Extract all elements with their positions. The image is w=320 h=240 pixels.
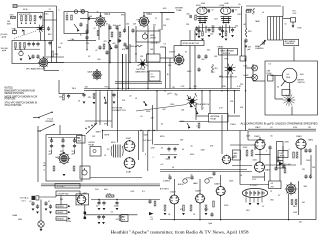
resistor R12: [111, 32, 113, 37]
spur rejector box: [181, 41, 204, 46]
resistor R11 20K: [52, 51, 54, 57]
resistor R3: [30, 16, 32, 22]
capacitor C30: [210, 212, 213, 217]
capacitor C35: [114, 44, 117, 49]
svg-text:RFC: RFC: [248, 31, 252, 33]
keyer relay box: [90, 147, 101, 157]
svg-text:μμfd: μμfd: [2, 50, 6, 52]
svg-text:5U4: 5U4: [95, 189, 98, 191]
capacitor C49: [274, 166, 277, 171]
svg-text:.05: .05: [129, 96, 132, 98]
svg-text:.1: .1: [152, 157, 154, 159]
wire spot rail: [179, 121, 209, 123]
resistor R13: [119, 32, 121, 37]
resistor R29: [190, 205, 192, 211]
svg-text:ALL CAPACITORS IN μμFD. UNLESS: ALL CAPACITORS IN μμFD. UNLESS OTHERWISE…: [241, 123, 318, 126]
capacitor C23: [308, 148, 311, 153]
tube V18 rectifier: [285, 183, 297, 196]
switch arm arrow: [23, 30, 25, 35]
svg-text:.001: .001: [153, 24, 157, 26]
node dots VFO: [15, 48, 16, 49]
resistor R38: [202, 31, 204, 36]
relay coil: [93, 149, 96, 152]
tube V6 6146 final 1: [197, 7, 207, 14]
wire AC heater line B: [41, 185, 160, 187]
tube V1 VFO 6AU6: [38, 57, 49, 68]
tube V16 audio 12AX7 b: [195, 193, 205, 203]
resistor R14: [97, 31, 99, 36]
socket V6: [197, 17, 208, 24]
svg-text:.05: .05: [161, 124, 164, 126]
wire hv link: [240, 184, 269, 186]
meter panel box: [265, 61, 318, 115]
wire speech mid: [248, 139, 265, 141]
wire above function switch: [85, 120, 112, 122]
svg-text:2.2MEG: 2.2MEG: [163, 181, 170, 183]
resistor R16 56K: [63, 95, 65, 101]
wire speech tube links: [259, 137, 261, 140]
svg-text:SW: SW: [60, 199, 63, 201]
pilot lamp: [38, 221, 44, 227]
svg-text:30: 30: [277, 87, 279, 89]
svg-text:.005: .005: [214, 19, 218, 21]
capacitor C3: [32, 42, 35, 47]
wire clip links: [230, 144, 255, 146]
resistor R30: [205, 205, 207, 211]
svg-text:+5: +5: [43, 170, 45, 172]
bias adjust box: [233, 150, 241, 160]
svg-text:ORN/BLK: ORN/BLK: [57, 206, 65, 208]
wire audio bottom rail: [160, 219, 316, 221]
audio coupling capacitor C37: [190, 175, 193, 180]
wire diode link: [84, 205, 86, 217]
svg-text:RG8: RG8: [298, 28, 302, 30]
svg-text:XTAL POSITION.: XTAL POSITION.: [5, 104, 23, 107]
svg-text:μfd: μfd: [72, 153, 75, 155]
socket pins: [246, 191, 262, 197]
svg-text:V3: V3: [164, 44, 166, 46]
wire function verticals: [107, 92, 109, 126]
wire right drops: [315, 145, 317, 220]
resistor R1: [21, 16, 23, 22]
svg-text:.001: .001: [302, 202, 306, 204]
wire mode links: [201, 91, 203, 110]
svg-text:.005: .005: [219, 76, 223, 78]
socket pin circles: [246, 192, 265, 194]
svg-text:SWITCH: SWITCH: [223, 53, 231, 55]
clipping inner box: [278, 151, 288, 158]
svg-text:1MEG: 1MEG: [96, 132, 102, 134]
svg-text:T3: T3: [270, 191, 272, 193]
svg-text:100: 100: [197, 29, 200, 31]
wire meter drop: [289, 83, 291, 94]
svg-text:OSC: OSC: [45, 14, 50, 16]
power plug: [32, 196, 36, 200]
modulation transformer T1: [111, 145, 123, 158]
rail contact arrow: [144, 102, 147, 106]
svg-text:.02: .02: [60, 43, 63, 45]
svg-text:.05: .05: [161, 148, 164, 150]
svg-text:100: 100: [126, 23, 129, 25]
svg-text:.01: .01: [140, 116, 143, 118]
resistor R10: [71, 15, 73, 20]
svg-text:A.F. INPUT: A.F. INPUT: [160, 188, 170, 191]
wire B+ rail mid 2: [143, 12, 175, 14]
svg-text:866: 866: [271, 200, 274, 202]
capacitor C24: [97, 201, 100, 206]
svg-text:V2: V2: [49, 9, 51, 11]
svg-text:.5μfd: .5μfd: [208, 223, 212, 225]
svg-text:.01: .01: [48, 201, 51, 203]
resistor R2: [25, 16, 27, 22]
svg-text:RFC: RFC: [121, 15, 125, 17]
svg-text:CW: CW: [92, 136, 95, 138]
svg-text:8: 8: [145, 154, 146, 156]
capacitor C51: [105, 50, 108, 55]
svg-text:.01: .01: [168, 175, 170, 177]
svg-text:VFO BANDSWITCH: VFO BANDSWITCH: [26, 67, 45, 70]
svg-text:12AX7: 12AX7: [195, 190, 202, 193]
tube V3 5763 buffer: [138, 15, 150, 27]
resistor R34: [198, 123, 200, 128]
junction dots extra: [95, 90, 96, 91]
antenna changeover relay box: [284, 40, 299, 46]
transformer wire label ORN: [56, 205, 67, 208]
HV arrows: [279, 162, 284, 165]
svg-text:.002: .002: [162, 109, 166, 111]
capacitor C29: [148, 199, 151, 204]
svg-text:μfd: μfd: [43, 165, 46, 167]
resistor R33: [295, 200, 297, 205]
wire vertical 154: [153, 26, 155, 54]
wire LV rail 2: [85, 214, 138, 216]
svg-text:47: 47: [94, 28, 96, 30]
wire screen rail finals: [196, 27, 236, 29]
key jack lever: [33, 117, 39, 119]
wire vert 231: [230, 74, 232, 89]
exciter output box: [147, 54, 161, 62]
svg-text:μμfd): μμfd): [2, 36, 7, 38]
ground filter: [63, 174, 66, 176]
capacitor C15: [204, 54, 207, 59]
clipping level box: [277, 142, 284, 169]
capacitor C12: [190, 15, 191, 18]
svg-text:47: 47: [155, 18, 157, 20]
svg-text:6146: 6146: [225, 3, 229, 5]
meter pointer: [281, 81, 286, 87]
VFO coil box: [64, 12, 88, 34]
wire relay to meter: [228, 115, 240, 117]
ground C18: [113, 102, 116, 104]
svg-text:.01: .01: [190, 175, 193, 177]
wire vert 222: [221, 49, 223, 89]
final tank coil L2: [268, 17, 284, 41]
junction dots rails: [108, 88, 109, 89]
svg-text:OSC: OSC: [10, 15, 15, 17]
svg-text:RFC: RFC: [211, 72, 215, 74]
svg-text:1MEG: 1MEG: [308, 140, 314, 142]
svg-text:VFO: VFO: [105, 86, 109, 88]
wire mod rails right: [154, 144, 179, 146]
svg-text:47: 47: [235, 10, 237, 12]
parasitic choke L1: [253, 8, 255, 14]
svg-text:μfd: μfd: [248, 49, 251, 51]
line voltage box 2: [56, 191, 80, 196]
resistor R36: [103, 44, 105, 49]
wire meter lamp link: [252, 64, 254, 81]
svg-text:1500: 1500: [253, 160, 257, 162]
tube V5 clamp 6AU6: [92, 70, 103, 81]
svg-text:100: 100: [210, 34, 213, 36]
driver output box: [149, 71, 160, 81]
wire HV verticals: [288, 194, 290, 220]
svg-text:100: 100: [214, 56, 217, 58]
resistor R37: [277, 157, 279, 162]
svg-text:30: 30: [172, 167, 174, 169]
wire vertical 125: [124, 13, 126, 31]
wire finals drops a: [202, 24, 204, 32]
wire exciter rail join: [122, 54, 124, 89]
wire mod b plus vertical: [156, 91, 158, 131]
capacitor C8: [108, 25, 111, 30]
tube V2 6CL6 oscillator: [95, 15, 107, 27]
tube V19 6AX5 rectifier: [77, 195, 87, 205]
trimmer cap T1: [74, 10, 78, 14]
socket V7: [221, 17, 232, 24]
wire switch drop: [37, 126, 39, 182]
LV HV terminal box: [269, 181, 281, 189]
bias potentiometer: [82, 170, 87, 175]
wire spot cluster: [187, 123, 190, 128]
wire vertical junction: [108, 24, 110, 89]
svg-text:40: 40: [96, 206, 98, 208]
svg-text:M.A.: M.A.: [286, 76, 291, 79]
svg-text:3.5: 3.5: [111, 212, 114, 214]
resistor R7: [19, 43, 21, 48]
svg-text:L1: L1: [66, 13, 68, 15]
wire driver drop: [161, 13, 163, 31]
ground 6146 a: [198, 36, 201, 38]
resistor R31: [213, 201, 215, 207]
svg-text:80M: 80M: [7, 24, 11, 26]
svg-text:MOD.: MOD.: [160, 136, 165, 138]
tube V9 6CA7 modulator 1: [124, 140, 136, 152]
wire speech verticals: [221, 115, 223, 154]
svg-text:.1: .1: [203, 108, 205, 110]
exciter bandswitch rotary: [138, 59, 148, 69]
svg-text:PUSHBUTTON: PUSHBUTTON: [113, 110, 127, 112]
svg-text:1W: 1W: [172, 87, 175, 89]
svg-text:.01: .01: [95, 50, 98, 52]
capacitor C22: [304, 148, 307, 153]
wire shield vertical: [56, 6, 58, 63]
svg-text:6146: 6146: [201, 3, 205, 5]
svg-text:5R4: 5R4: [246, 210, 249, 212]
mode switch arrows: [187, 95, 190, 99]
tube V15 audio 12AX7 a: [169, 194, 179, 204]
resistor R32: [291, 200, 293, 205]
wire speech rails: [160, 169, 247, 171]
ground C45: [208, 35, 211, 37]
resistor R17: [93, 94, 95, 99]
line filter capacitor Cb: [44, 201, 47, 206]
ground C44: [195, 34, 198, 36]
svg-text:LAMP: LAMP: [244, 74, 250, 77]
wire screen rail join: [245, 14, 247, 29]
wire B+ rail mid: [88, 12, 125, 14]
wire speech h2: [252, 176, 265, 178]
resistor R26: [154, 201, 156, 206]
tube V10 6CA7 modulator 2: [124, 157, 136, 169]
wire finals drops b: [225, 24, 227, 32]
svg-text:FUSE: FUSE: [66, 221, 72, 223]
svg-text:SPUR. REJECTOR: SPUR. REJECTOR: [183, 43, 200, 45]
svg-text:BFO: BFO: [48, 34, 52, 36]
capacitor C14: [197, 67, 200, 72]
crystal bank box: [17, 13, 43, 28]
wire vert 234.5: [234, 91, 236, 114]
meter switch rotary: [283, 94, 296, 107]
svg-text:40μfd: 40μfd: [114, 206, 119, 208]
rotary final bandswitch: [225, 64, 236, 75]
dial lamp I1: [252, 65, 258, 71]
resistor R5 grid: [11, 16, 16, 18]
junction dots exciter: [109, 62, 110, 63]
wire meter link2: [275, 98, 283, 100]
dial mechanism box: [45, 12, 54, 41]
capacitor C31: [304, 174, 307, 179]
svg-text:12BY7: 12BY7: [169, 52, 176, 54]
svg-text:NOTES:: NOTES:: [5, 88, 14, 90]
wire plate V3: [143, 13, 145, 16]
wire clip drop: [282, 146, 284, 153]
svg-text:.005: .005: [235, 26, 239, 28]
tube V4 12BY7 driver: [173, 54, 185, 66]
ground R17: [93, 102, 96, 104]
svg-text:.25: .25: [190, 146, 193, 148]
resistor R9: [66, 15, 68, 20]
wire bias link: [90, 177, 142, 179]
wire vertical 136: [135, 26, 137, 54]
svg-text:GND: GND: [18, 219, 23, 221]
svg-text:40: 40: [99, 201, 101, 203]
wire speech mid2: [247, 131, 249, 140]
svg-text:47: 47: [185, 52, 187, 54]
capacitor C42: [31, 54, 34, 59]
ground C48: [245, 46, 248, 48]
svg-text:RFC: RFC: [238, 14, 242, 16]
svg-text:.05: .05: [169, 93, 172, 95]
trimmer cap T2: [81, 10, 85, 14]
svg-text:TUBE: TUBE: [176, 10, 182, 12]
ground socket: [249, 203, 252, 205]
capacitor C13: [197, 54, 200, 59]
wire dashed switch link: [14, 31, 36, 39]
diode D2: [84, 212, 87, 215]
shunt box: [282, 90, 290, 96]
switch arm in coil box: [74, 24, 79, 31]
capacitor C7: [89, 17, 90, 20]
function switch contacts: [85, 123, 95, 129]
svg-text:12AU7: 12AU7: [265, 169, 272, 172]
svg-text:2A3: 2A3: [304, 185, 307, 188]
svg-text:6CA7: 6CA7: [126, 170, 132, 173]
socket pin leads: [246, 198, 262, 203]
wire LV rail: [91, 199, 160, 201]
svg-text:.1: .1: [288, 149, 290, 151]
svg-text:6CL6: 6CL6: [105, 14, 111, 16]
crystal switch SW1: [37, 25, 45, 33]
capacitor C45: [207, 28, 210, 33]
svg-text:2W: 2W: [240, 84, 243, 86]
coupling parts: [195, 15, 197, 20]
wire vertical 128.5: [128, 26, 130, 89]
svg-text:L4: L4: [262, 12, 264, 14]
trimmer inside dial box: [47, 26, 50, 31]
svg-text:MODE SWITCH: MODE SWITCH: [196, 104, 210, 106]
function switch lever: [86, 123, 97, 134]
crystal Y1: [13, 31, 17, 34]
svg-text:INP.: INP.: [122, 219, 126, 221]
ground 6146 b: [221, 36, 224, 38]
ground VFO: [20, 59, 23, 61]
filter caps group 1: [50, 138, 53, 143]
wire notes vert: [58, 80, 60, 94]
capacitor C9: [115, 25, 118, 30]
svg-text:100: 100: [89, 16, 92, 18]
svg-text:RELAY: RELAY: [218, 45, 225, 48]
tube V14 12AU7 b: [295, 138, 306, 149]
resistor R19: [73, 166, 75, 171]
filter box top wire: [48, 137, 80, 139]
svg-text:OSC: OSC: [80, 12, 85, 14]
rail start box: [13, 5, 17, 8]
wire vert 227.5: [227, 49, 229, 91]
drive pot box: [136, 31, 160, 42]
svg-text:ADJ.: ADJ.: [234, 155, 238, 158]
svg-text:12AU7: 12AU7: [296, 135, 303, 138]
wire speech h3: [255, 154, 270, 156]
wire osc cathode down: [98, 26, 100, 40]
svg-text:MOD.: MOD.: [111, 142, 116, 144]
svg-text:115 V.A.C.: 115 V.A.C.: [57, 185, 66, 188]
svg-text:6.3: 6.3: [269, 64, 272, 66]
svg-text:DRIVE: DRIVE: [150, 38, 157, 40]
svg-text:GRN/BLK: GRN/BLK: [57, 219, 65, 221]
capacitor C21: [268, 145, 271, 150]
capacitor C50: [98, 45, 101, 50]
svg-text:METER POSITION.: METER POSITION.: [5, 93, 25, 95]
wire loading drop: [244, 40, 246, 61]
svg-text:1MEG: 1MEG: [208, 178, 214, 180]
svg-text:1 MEG: 1 MEG: [230, 124, 236, 126]
wire speech drop links: [239, 131, 241, 185]
ground C17: [83, 102, 86, 104]
svg-text:OPERATE: OPERATE: [45, 120, 54, 123]
svg-text:.002: .002: [207, 50, 211, 52]
svg-text:300: 300: [58, 47, 61, 49]
gain pot: [183, 179, 187, 183]
svg-text:AUDIO: AUDIO: [178, 183, 184, 186]
svg-text:40μfd: 40μfd: [166, 159, 171, 161]
wire B plus small box: [240, 56, 246, 61]
svg-text:47K 47K 47K: 47K 47K 47K: [19, 14, 31, 16]
transformer wire label GRN: [56, 217, 67, 220]
wire AC heater line A: [41, 183, 160, 185]
svg-text:117 V.A.C.: 117 V.A.C.: [20, 197, 30, 200]
capacitor C39: [117, 38, 120, 43]
TR relay box: [209, 114, 229, 123]
